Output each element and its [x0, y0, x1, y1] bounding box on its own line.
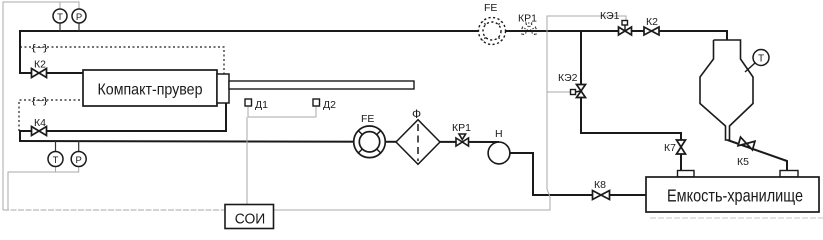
detector D1 [245, 99, 252, 106]
instrument P top [78, 23, 80, 31]
detector D2 [313, 99, 320, 106]
flow meter FE top dashed [479, 18, 506, 45]
signal D2 stem [315, 106, 317, 117]
svg-text:К2: К2 [34, 59, 46, 71]
signal bus to SOI [3, 209, 225, 211]
svg-text:Р: Р [76, 155, 82, 166]
compact prover box [83, 70, 217, 106]
wire bottom pipe [19, 141, 499, 142]
svg-text:FE: FE [484, 2, 497, 14]
valve K8 [593, 191, 610, 200]
svg-text:Р: Р [76, 12, 82, 23]
svg-text:КЭ1: КЭ1 [600, 10, 620, 22]
prover flange [217, 74, 229, 103]
svg-text:К8: К8 [594, 179, 606, 191]
solenoid valve KE2 [577, 85, 586, 98]
filter F [396, 120, 440, 165]
svg-text:Д2: Д2 [323, 99, 336, 111]
wire K5 drain diagonal [728, 140, 788, 171]
svg-text:Н: Н [495, 128, 503, 140]
solenoid valve KE1 [619, 27, 632, 35]
SOI box [225, 205, 274, 229]
svg-text:КР1: КР1 [452, 122, 471, 134]
wire top pipe [20, 31, 727, 41]
svg-text:К2: К2 [646, 16, 658, 28]
instrument T top [59, 23, 61, 31]
signal to KE2 [547, 91, 571, 93]
control valve KP1 top dashed [522, 23, 536, 35]
svg-text:Компакт-прувер: Компакт-прувер [98, 82, 203, 99]
wire pump outlet [510, 153, 648, 195]
dotted bypass line 1 [20, 47, 224, 74]
valve K2 left [32, 69, 47, 78]
svg-text:Ф: Ф [412, 107, 421, 121]
tank shadow line [650, 217, 823, 219]
signal top TP header [3, 2, 79, 210]
signal top T stub [59, 2, 61, 9]
tank nozzle right [780, 171, 798, 178]
storage tank box [646, 177, 819, 212]
dotted bypass line 2 [19, 100, 84, 131]
signal detectors to SOI [246, 117, 248, 205]
measuring vessel outline [700, 40, 753, 140]
wire K4 line [19, 103, 226, 131]
svg-text:FE: FE [361, 113, 374, 125]
svg-text:Емкость-хранилище: Емкость-хранилище [667, 186, 803, 206]
signal bottom T stub [55, 167, 57, 173]
valve K4 [32, 127, 47, 136]
tank nozzle left [678, 171, 695, 178]
instrument T bottom [55, 141, 57, 152]
svg-text:К7: К7 [664, 142, 676, 154]
signal D1 stem [247, 106, 249, 117]
thermometer T on vessel [745, 63, 755, 72]
svg-text:{~}: {~} [32, 96, 48, 106]
svg-text:СОИ: СОИ [235, 211, 266, 228]
pump N [488, 142, 510, 164]
svg-text:КР1: КР1 [518, 13, 537, 25]
svg-text:Т: Т [53, 155, 59, 166]
flow meter FE bottom [354, 126, 386, 158]
svg-text:Т: Т [57, 12, 63, 23]
signal bus right of SOI [274, 16, 626, 210]
svg-text:К5: К5 [737, 156, 749, 168]
control valve KP1 bottom [456, 134, 469, 146]
signal bottom TP header [8, 167, 79, 211]
svg-text:Д1: Д1 [255, 99, 268, 111]
wire left riser top [19, 30, 21, 73]
svg-text:КЭ2: КЭ2 [558, 72, 578, 84]
valve K5 tilted [738, 137, 755, 150]
valve K7 [677, 140, 686, 154]
prover shaft [229, 81, 414, 89]
signal D1-D2 link [248, 116, 316, 118]
svg-text:{~}: {~} [32, 43, 48, 53]
svg-text:Т: Т [758, 54, 764, 65]
wire KE2 branch [581, 31, 681, 171]
wire K2 line [19, 72, 84, 74]
instrument P bottom [78, 141, 80, 152]
svg-text:К4: К4 [34, 117, 46, 129]
wire left riser bottom [19, 130, 21, 141]
valve K2 right [644, 27, 659, 35]
